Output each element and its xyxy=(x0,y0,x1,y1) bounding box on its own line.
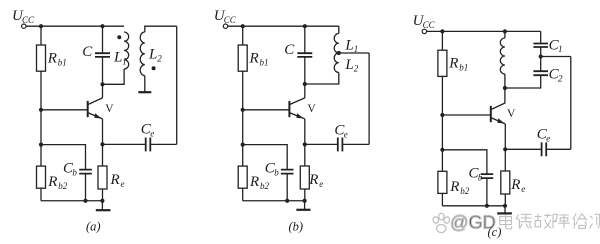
label Ucc (b) xyxy=(214,8,237,25)
capacitor C (b) xyxy=(297,53,312,57)
label C (a) xyxy=(82,44,93,60)
label Rb1 (a) xyxy=(47,51,67,68)
watermark hanzi zhang xyxy=(553,214,570,228)
wire Cb branch (b) xyxy=(243,145,288,170)
wire Cb to bottom rail (b) xyxy=(286,174,288,201)
resistor Rb2 (c) xyxy=(438,171,447,193)
svg-text:1: 1 xyxy=(558,44,563,54)
wire ground stub (c) xyxy=(504,206,506,213)
svg-text:R: R xyxy=(249,174,259,190)
resistor Rb2 (a) xyxy=(37,166,46,188)
label C1 (c) xyxy=(549,37,563,54)
node ground junction dot (b) xyxy=(303,199,307,203)
node base junction dot (c) xyxy=(440,113,444,117)
node emitter junction dot (c) xyxy=(503,147,507,151)
watermark hanzi gu xyxy=(535,214,552,229)
label Re (c) xyxy=(510,177,525,194)
svg-text:e: e xyxy=(319,179,323,189)
wire left column to bottom (c) xyxy=(441,76,443,171)
wire emitter down (c) xyxy=(504,124,506,171)
ground under L2 (a) xyxy=(138,91,151,93)
watermark hanzi lan xyxy=(516,214,532,228)
label Rb2 (a) xyxy=(47,174,68,191)
wire emitter row to Ce (a) xyxy=(103,143,146,145)
svg-text:L: L xyxy=(148,47,157,63)
wire collector (a) xyxy=(102,84,104,98)
wire Ce to right line (c) xyxy=(547,148,571,150)
watermark hanzi jian xyxy=(573,214,587,229)
wire L1 bottom to tank node (a) xyxy=(103,69,125,84)
wire left column upper (a) xyxy=(40,26,42,45)
svg-text:e: e xyxy=(521,184,525,194)
node tap dot (b) xyxy=(337,51,341,55)
svg-text:L: L xyxy=(344,37,353,53)
resistor Re (a) xyxy=(98,166,107,189)
capacitor Ce (b) xyxy=(338,138,343,152)
resistor Re (b) xyxy=(300,166,309,189)
svg-text:R: R xyxy=(308,172,318,188)
resistor Rb2 (b) xyxy=(238,166,247,188)
wire tank column lower (a) xyxy=(102,57,104,84)
inductor L2 (a) xyxy=(140,32,145,76)
label L1 (b) xyxy=(344,37,358,54)
wire Cb to bottom rail (c) xyxy=(486,178,488,206)
wire ground stub (a) xyxy=(101,201,103,210)
wire bottom rail (b) xyxy=(243,200,305,202)
wire inductor bottom to node (c) xyxy=(504,74,506,88)
label Ce (b) xyxy=(334,122,347,139)
wire ground stub (b) xyxy=(304,201,306,209)
capacitor Ce (c) xyxy=(542,142,547,156)
svg-text:C: C xyxy=(82,44,93,60)
wire right line (b) xyxy=(368,53,370,144)
capacitor C2 (c) xyxy=(533,71,548,75)
transistor V (c) xyxy=(491,103,506,124)
label L2 (a) xyxy=(148,47,162,64)
node polarity dot L2 (a) xyxy=(152,66,156,70)
node Ucc terminal (c) xyxy=(422,29,426,33)
svg-text:V: V xyxy=(307,103,316,115)
svg-text:b1: b1 xyxy=(58,58,67,68)
wire L2 to ground (a) xyxy=(144,76,146,92)
wire emitter row to Ce (b) xyxy=(305,143,338,145)
svg-text:b: b xyxy=(478,172,483,182)
ground main (b) xyxy=(296,209,310,211)
svg-text:CC: CC xyxy=(224,15,237,25)
wire Cb to bottom rail (a) xyxy=(85,174,87,201)
wire Rb2 to bottom rail (a) xyxy=(40,188,42,201)
transistor V (a) xyxy=(88,98,103,119)
wire coil top (b) xyxy=(338,26,340,33)
resistor Rb1 (c) xyxy=(438,50,447,76)
svg-text:b1: b1 xyxy=(459,63,468,73)
inductor L1 (a) xyxy=(124,32,129,69)
svg-text:b: b xyxy=(72,167,77,177)
svg-text:e: e xyxy=(344,129,348,139)
node junction dot top-left (c) xyxy=(440,29,444,33)
svg-text:R: R xyxy=(510,177,520,193)
watermark paw icon xyxy=(432,213,450,232)
label (c) xyxy=(488,225,502,239)
wire emitter row to Ce (c) xyxy=(505,148,541,150)
svg-text:V: V xyxy=(507,108,516,120)
resistor Rb1 (b) xyxy=(238,45,247,71)
node dot Cb-bottom (b) xyxy=(285,199,289,203)
wire base (b) xyxy=(243,109,290,111)
svg-text:(c): (c) xyxy=(488,225,502,239)
wire L2 top (a) xyxy=(145,26,177,32)
watermark hanzi ce xyxy=(589,214,599,228)
svg-text:2: 2 xyxy=(354,64,359,74)
label C (b) xyxy=(284,42,295,58)
label Rb1 (c) xyxy=(448,56,468,73)
inductor L2 (b) xyxy=(334,53,339,73)
wire left column to bottom (b) xyxy=(242,71,244,166)
svg-text:b2: b2 xyxy=(58,181,68,191)
node junction dot tank-top (c) xyxy=(503,29,507,33)
wire left column to base node (a) xyxy=(40,71,42,166)
wire right line (a) xyxy=(176,26,178,144)
svg-text:V: V xyxy=(105,103,114,115)
resistor Rb1 (a) xyxy=(37,45,46,71)
svg-text:CC: CC xyxy=(22,15,35,25)
label C2 (c) xyxy=(549,67,563,84)
svg-text:b2: b2 xyxy=(460,186,470,196)
node junction dot top-left (b) xyxy=(241,24,245,28)
label Cb (c) xyxy=(469,166,483,183)
inductor L1 (b) xyxy=(334,34,339,54)
svg-text:L: L xyxy=(113,50,122,66)
node Ucc terminal (a) xyxy=(22,24,26,28)
wire tank column upper (a) xyxy=(102,26,104,53)
wire Rb2 to bottom rail (c) xyxy=(441,193,443,205)
node polarity dot L1 (a) xyxy=(117,35,121,39)
svg-text:R: R xyxy=(47,174,57,190)
wire left column upper (c) xyxy=(441,31,443,50)
node base junction dot (a) xyxy=(39,108,43,112)
label V (c) xyxy=(507,108,516,120)
label Re (a) xyxy=(110,172,125,189)
svg-text:(b): (b) xyxy=(289,220,304,234)
label Rb2 (b) xyxy=(249,174,270,191)
capacitor Cb (c) xyxy=(481,174,494,178)
node junction dot tank-bottom (a) xyxy=(100,82,104,86)
wire tap to right line (b) xyxy=(339,52,369,54)
svg-text:e: e xyxy=(121,179,125,189)
inductor L (c) xyxy=(500,38,505,74)
node junction dot tank-bottom (c) xyxy=(503,86,507,90)
wire top rail (b) xyxy=(228,25,339,27)
wire collector (c) xyxy=(504,88,506,103)
node dot Cb-bottom (a) xyxy=(83,199,87,203)
wire coil bottom to tank node (b) xyxy=(305,73,339,85)
svg-text:R: R xyxy=(110,172,120,188)
wire inductor top (c) xyxy=(504,31,506,38)
svg-text:R: R xyxy=(249,51,259,67)
svg-text:2: 2 xyxy=(157,53,162,63)
label (b) xyxy=(289,220,304,234)
label Ucc (a) xyxy=(12,8,35,25)
label V (a) xyxy=(105,103,114,115)
wire left column upper (b) xyxy=(242,26,244,45)
label Re (b) xyxy=(308,172,323,189)
wire C2 bottom to tank node (c) xyxy=(505,76,541,89)
svg-text:C: C xyxy=(284,42,295,58)
wire emitter down (b) xyxy=(304,119,306,166)
node ground junction dot (c) xyxy=(503,204,507,208)
node junction dot top-left (a) xyxy=(39,24,43,28)
wire bottom rail (a) xyxy=(41,200,102,202)
wire bottom rail (c) xyxy=(442,205,505,207)
wire C1 column top (c) xyxy=(540,31,542,43)
wire top rail (c) xyxy=(427,30,541,32)
capacitor Ce (a) xyxy=(146,138,151,152)
svg-text:e: e xyxy=(546,133,550,143)
wire Re to bottom (a) xyxy=(102,189,104,201)
wire tap to right line (c) xyxy=(541,56,571,58)
wire top rail (a) xyxy=(26,25,124,27)
wire right line (c) xyxy=(570,57,572,150)
svg-text:R: R xyxy=(449,179,459,195)
label Ce (c) xyxy=(537,127,550,144)
ground main (c) xyxy=(497,212,512,214)
label (a) xyxy=(86,220,101,234)
node dot Cb-bottom (c) xyxy=(485,204,489,208)
node junction dot tank-top (a) xyxy=(100,24,104,28)
wire Ce to right line (a) xyxy=(151,143,177,145)
node emitter junction dot (b) xyxy=(303,142,307,146)
label Rb1 (b) xyxy=(249,51,269,68)
label Rb2 (c) xyxy=(449,179,470,196)
capacitor Cb (a) xyxy=(79,170,92,174)
node left junction dot row2 (b) xyxy=(241,143,245,147)
label Cb (a) xyxy=(63,161,77,178)
svg-text:(a): (a) xyxy=(86,220,101,234)
label L1 (a) xyxy=(113,50,127,67)
node Ucc terminal (b) xyxy=(223,24,227,28)
capacitor Cb (b) xyxy=(281,170,294,174)
wire Ce to right line (b) xyxy=(343,143,369,145)
wire base (c) xyxy=(442,114,490,116)
node ground junction dot (a) xyxy=(100,199,104,203)
watermark hanzi dian xyxy=(500,214,512,229)
wire base (a) xyxy=(41,109,88,111)
svg-text:e: e xyxy=(150,128,154,138)
capacitor C (a) xyxy=(95,53,110,57)
wire Re to bottom (b) xyxy=(304,189,306,201)
svg-text:CC: CC xyxy=(423,20,436,30)
node base junction dot (b) xyxy=(241,108,245,112)
wire Re to bottom (c) xyxy=(504,194,506,206)
node left junction dot row2 (c) xyxy=(440,148,444,152)
wire Cb branch (a) xyxy=(41,145,86,170)
svg-text:b2: b2 xyxy=(260,181,270,191)
watermark text @GD xyxy=(450,213,496,233)
svg-text:L: L xyxy=(344,57,353,73)
wire tank column lower (b) xyxy=(304,57,306,84)
resistor Re (c) xyxy=(501,171,510,194)
wire C1 to tap (c) xyxy=(540,47,542,71)
svg-text:1: 1 xyxy=(122,56,127,66)
label Cb (b) xyxy=(265,161,279,178)
wire emitter down (a) xyxy=(102,119,104,166)
node left junction dot row2 (a) xyxy=(39,143,43,147)
node junction dot tank-top (b) xyxy=(303,24,307,28)
svg-text:2: 2 xyxy=(558,74,563,84)
label Ucc (c) xyxy=(413,13,436,30)
svg-text:b: b xyxy=(274,167,279,177)
label V (b) xyxy=(307,103,316,115)
svg-text:b1: b1 xyxy=(260,58,269,68)
node emitter junction dot (a) xyxy=(100,142,104,146)
svg-text:R: R xyxy=(47,51,57,67)
node junction dot tank-bottom (b) xyxy=(303,82,307,86)
transistor V (b) xyxy=(289,98,304,119)
capacitor C1 (c) xyxy=(533,44,548,48)
wire tank column upper (b) xyxy=(304,26,306,53)
node tap dot (c) xyxy=(539,54,543,58)
wire Rb2 to bottom rail (b) xyxy=(242,188,244,201)
label L2 (b) xyxy=(344,57,358,74)
ground main (a) xyxy=(96,209,111,211)
wire Cb branch (c) xyxy=(442,150,487,174)
wire collector (b) xyxy=(304,84,306,98)
label Ce (a) xyxy=(141,122,154,139)
svg-text:R: R xyxy=(448,56,458,72)
